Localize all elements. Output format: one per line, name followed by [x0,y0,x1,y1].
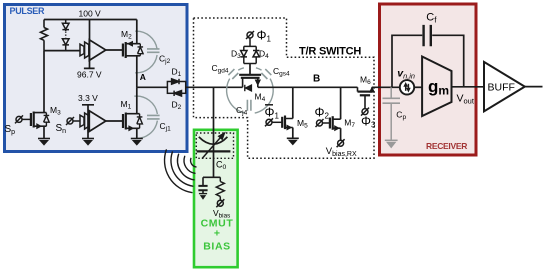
RECEIVER box [380,4,477,155]
svg-text:BIAS: BIAS [203,241,231,253]
wire driver U3 output to M1 gate [106,120,123,122]
wire M6 to receiver input [372,86,400,88]
port Φ2 (M7 gate) [316,119,330,127]
transistor M7 (NMOS) [330,116,341,130]
svg-text:100 V: 100 V [79,9,102,19]
port Vbias [216,199,224,207]
wire gm output [452,86,485,88]
wire junction down to CMUT [213,87,215,151]
wire node to driver input [44,50,80,52]
M4 parasitic circle (gray) [227,68,274,113]
ground (M5) [287,138,299,145]
capacitor Cj1 (gray arc + plates) [134,96,159,138]
CMUT+BIAS green box [194,130,238,267]
3.3V supply bar [82,105,94,131]
CMUT dotted inner box [196,133,233,158]
op-amp gm [422,57,451,117]
ground (M3) [38,139,50,146]
wire bias node split [203,176,220,178]
capacitor Cp (gray) [383,87,401,148]
buffer BUFF [484,62,525,111]
port Φ1bar (M5 gate) [265,118,282,126]
port Φ3 [361,108,369,116]
wire D1/D2 to M4 [186,86,243,88]
svg-text:96.7 V: 96.7 V [77,70,102,80]
svg-text:BUFF: BUFF [488,82,515,94]
wire left column down to M3 drain [43,51,45,113]
svg-text:B: B [313,74,320,85]
wire node A to D1/D2 [137,86,168,88]
diode pair D3/D4 [241,46,260,63]
wire BUFF output [525,86,543,88]
ground (bias cap) [199,194,207,200]
wire D3/D4 to M4 gate [249,64,251,75]
wire M1 drain to node A [136,87,138,113]
wire driver output to M2 gate [106,49,123,51]
svg-text:A: A [140,72,146,82]
diode pair D1/D2 block [167,79,185,96]
wire M7 drain to line B [340,87,342,119]
wire noise source to gm [414,86,422,88]
wire M4 to node B and M6 [258,86,358,88]
driver U3 triangle [89,111,106,132]
svg-text:3.3 V: 3.3 V [78,93,98,103]
label Φ1bar [265,105,280,121]
wire M3 source to ground [43,126,45,138]
capacitor Cj2 (gray arc + plates) [135,31,159,73]
capacitor Cf feedback [392,25,464,87]
wire 100V rail to M2 source [136,20,138,44]
100V rail wire [44,19,137,21]
transistor M1 (NMOS) [123,113,142,131]
wire driver top supply from rail [89,20,91,61]
resistor R1 [41,20,48,51]
96.7V supply bar [84,60,95,68]
svg-text:RECEIVER: RECEIVER [426,141,467,151]
driver U2 (high-side) chevrons [80,42,89,58]
wire C0 to bias node [213,151,215,177]
capacitor bias (left branch) [198,177,207,193]
transistor M5 (NMOS) [282,116,293,130]
CMUT membrane capacitor C0 [197,133,231,159]
transistor M6 (lateral pass FET) [358,87,375,108]
wire M7 source to Vbias,RX port [340,128,342,140]
wire M1 source to ground [136,128,138,138]
driver U3 (low-side) chevrons [80,113,89,129]
ground (M1) [131,139,143,146]
wire M5 drain to line B [292,87,294,118]
T/R SWITCH dashed boundary [194,18,375,158]
port Vbias,RX [337,139,345,147]
wire M5 source to ground [292,128,294,139]
wire M2 drain to node A [136,56,138,88]
acoustic waves [165,150,196,193]
transistor M2 (PMOS) [123,42,143,59]
svg-text:T/R SWITCH: T/R SWITCH [299,46,361,58]
resistor Rbias (right branch) [216,177,224,200]
ground (driver U3) [82,131,94,146]
port Φ1 (M4 gate drive) [246,31,254,46]
port Sn [66,117,80,125]
diode chain D (2 series diodes with dotted continuation) [62,20,69,51]
port Sp [15,115,31,123]
svg-text:+: + [214,228,220,240]
PULSER box [5,5,188,152]
noise source vn,in [400,80,414,94]
transistor M4 (lateral pass FET) [239,75,261,91]
capacitor Cgs4 (tilted, gray) [261,69,271,79]
capacitor Cj4 (gray plates) [247,100,251,111]
transistor M3 (NMOS level shifter) [31,112,49,129]
driver U2 triangle [89,40,106,61]
capacitor Cgd4 (tilted, gray) [228,69,238,79]
svg-text:PULSER: PULSER [10,6,46,16]
